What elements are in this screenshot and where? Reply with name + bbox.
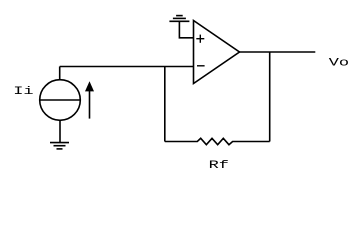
svg-text:Ii: Ii bbox=[13, 85, 33, 98]
svg-text:Rf: Rf bbox=[209, 160, 229, 173]
svg-text:Vo: Vo bbox=[329, 57, 349, 70]
